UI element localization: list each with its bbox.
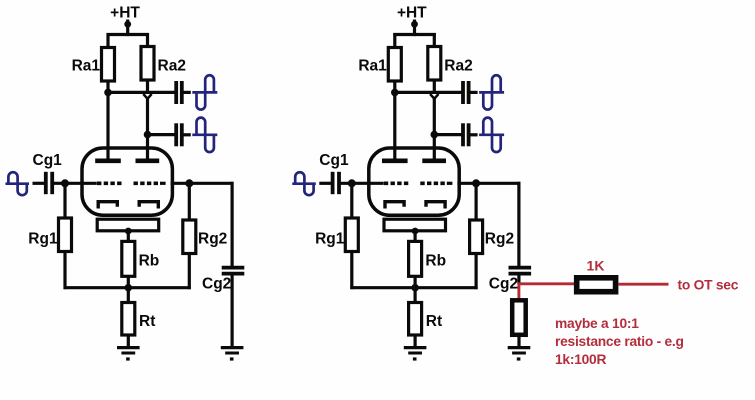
wire Ra2 bottom lead to anode 2 (left) — [146, 80, 149, 91]
wire Rg1 top lead (left) — [63, 183, 66, 218]
valve grid 1 dashes (left) — [97, 182, 123, 186]
wire down to Cg2 (left) — [231, 182, 234, 266]
svg-text:Cg1: Cg1 — [319, 152, 349, 169]
svg-text:Rt: Rt — [139, 313, 155, 330]
node junction dot at heater/cathode return (left) — [125, 228, 132, 235]
wire Cg2 to ground (left) — [231, 275, 234, 347]
resistor Rt (left) — [122, 303, 135, 336]
resistor Ra1 (right) — [388, 48, 401, 82]
wire Rb bottom lead (right) — [414, 276, 417, 287]
wire Ra1 bottom lead to anode 1 (left) — [106, 81, 109, 161]
resistor Ra1 (left) — [102, 48, 115, 82]
svg-text:+HT: +HT — [110, 4, 140, 21]
wire bias rail (left) — [64, 286, 191, 289]
capacitor output coupling cap 1 (right) — [461, 81, 465, 104]
node junction dot bias rail (left) — [125, 284, 133, 292]
wire Rt top lead (left) — [127, 288, 130, 303]
wire red jumper horizontal to 1K resistor — [518, 282, 576, 285]
capacitor Cg2 (right) — [509, 266, 532, 270]
wire Cg1 to grid (right) — [340, 182, 383, 185]
resistor 1K series — [577, 278, 616, 292]
valve U envelope (left) — [82, 148, 172, 215]
wire top rail between Ra1 and Ra2 (left) — [107, 33, 150, 36]
capacitor Cg1 (right) — [331, 172, 335, 194]
resistor Ra2 (right) — [428, 47, 441, 81]
wire cap 1 to scope probe (left) — [183, 91, 191, 94]
node junction dot bias rail (right) — [411, 284, 419, 292]
wire cathode column to Rb (left) — [127, 231, 130, 241]
capacitor output coupling cap 1 (left) — [174, 81, 178, 104]
valve U envelope (right) — [369, 148, 459, 215]
node junction dot grid right (left) — [185, 179, 193, 187]
wire Rt bottom lead (right) — [414, 335, 417, 347]
wire Rt top lead (right) — [414, 288, 417, 303]
wire red jumper down to divider resistor — [517, 284, 520, 299]
svg-text:Cg2: Cg2 — [202, 276, 231, 293]
svg-text:Rg2: Rg2 — [485, 231, 514, 248]
wire Cg1 to grid (left) — [54, 182, 97, 185]
svg-text:Ra1: Ra1 — [358, 58, 387, 75]
svg-text:maybe a 10:1: maybe a 10:1 — [555, 316, 639, 331]
wire cap 2 to scope probe (left) — [183, 133, 191, 136]
svg-text:Rb: Rb — [425, 253, 446, 270]
wire input to Cg1 (right) — [319, 182, 332, 185]
valve grid 2 dashes (right) — [420, 182, 447, 186]
wire anode 1 output line to coupling cap (left) — [108, 91, 176, 94]
wire divider resistor to ground — [517, 337, 520, 347]
wire anode 2 output line to coupling cap (left) — [148, 133, 177, 136]
wire Rg2 bottom lead (left) — [188, 254, 191, 290]
waveform sine at anode 2 output (left) — [192, 133, 217, 136]
wire Rg1 bottom lead (right) — [350, 252, 353, 290]
wire Rg1 top lead (right) — [350, 183, 353, 218]
wire Rg2 top lead (right) — [475, 183, 478, 220]
waveform inverted sine at anode 1 output (left) — [192, 91, 217, 94]
svg-text:Rt: Rt — [426, 313, 442, 330]
svg-text:+HT: +HT — [397, 4, 427, 21]
wire red to OT secondary — [618, 283, 668, 286]
wire Ra1 top lead (right) — [393, 33, 396, 48]
valve grid 2 dashes (left) — [134, 182, 161, 186]
node junction dot grid input (right) — [348, 179, 356, 187]
svg-text:Ra1: Ra1 — [72, 58, 101, 75]
node junction dot anode 1 output (right) — [391, 89, 399, 97]
node junction dot grid input (left) — [61, 179, 69, 187]
wire crossover hop of Ra2 lead over anode-1 line (left) — [143, 94, 151, 99]
resistor Rt (right) — [409, 303, 422, 336]
wire cathode column to Rb (right) — [414, 231, 417, 241]
wire cap 1 to scope probe (right) — [470, 91, 478, 94]
wire Rb bottom lead (left) — [127, 276, 130, 287]
svg-text:resistance ratio - e.g: resistance ratio - e.g — [555, 334, 684, 349]
wire anode 1 output line to coupling cap (right) — [395, 91, 463, 94]
node junction dot on +HT lead (left) — [124, 21, 131, 28]
resistor Rg1 (left) — [59, 218, 72, 252]
capacitor output coupling cap 2 (left) — [174, 123, 178, 146]
resistor Rb (left) — [122, 241, 135, 276]
valve anode plate 1 (right) — [382, 159, 408, 164]
valve anode plate 2 (right) — [422, 159, 446, 164]
node junction dot anode 2 output (left) — [144, 131, 152, 139]
wire Ra2 bottom lead to anode 2 (right) — [433, 80, 436, 91]
wire crossover hop of Ra2 lead over anode-1 line (right) — [430, 94, 438, 99]
wire grid stub inside envelope right (left) — [160, 182, 166, 185]
valve heater box (right) — [384, 219, 446, 231]
waveform input sine (right) — [292, 182, 316, 185]
svg-text:Rg2: Rg2 — [198, 231, 227, 248]
wire Cg2 bottom stub (right) — [517, 275, 520, 284]
waveform sine at anode 2 output (right) — [479, 133, 504, 136]
wire input to Cg1 (left) — [33, 182, 46, 185]
capacitor output coupling cap 2 (right) — [461, 123, 465, 146]
svg-text:Rg1: Rg1 — [28, 231, 58, 248]
resistor Rg2 (right) — [470, 220, 483, 254]
valve cathode 1 (left) — [98, 202, 117, 209]
node junction dot on +HT lead (right) — [411, 21, 418, 28]
ground below Rt (left) — [117, 346, 140, 349]
ground below Cg2 (left) — [221, 346, 244, 349]
svg-text:Ra2: Ra2 — [158, 58, 186, 75]
ground below Rt (right) — [404, 346, 427, 349]
svg-text:Cg1: Cg1 — [33, 152, 63, 169]
valve cathode 2 (right) — [426, 202, 445, 209]
resistor Rg1 (right) — [345, 218, 358, 252]
wire down to Cg2 (right) — [517, 182, 520, 266]
svg-text:1k:100R: 1k:100R — [555, 352, 606, 367]
svg-text:to OT sec: to OT sec — [678, 277, 739, 292]
valve cathode 2 (left) — [139, 202, 158, 209]
valve heater box (left) — [97, 219, 159, 231]
wire cap 2 to scope probe (right) — [470, 133, 478, 136]
resistor Ra2 (left) — [141, 47, 154, 81]
valve anode plate 2 (left) — [136, 159, 160, 164]
waveform input sine (left) — [6, 182, 30, 185]
valve anode plate 1 (left) — [95, 159, 121, 164]
node junction dot anode 1 output (left) — [104, 89, 112, 97]
node junction dot at heater/cathode return (right) — [412, 228, 419, 235]
resistor Rg2 (left) — [183, 220, 196, 254]
wire Rg2 top lead (left) — [188, 183, 191, 220]
node junction dot grid right (right) — [472, 179, 480, 187]
wire Rg2 bottom lead (right) — [475, 254, 478, 290]
wire Rt bottom lead (left) — [127, 335, 130, 347]
wire anode 2 output line to coupling cap (right) — [434, 133, 463, 136]
svg-text:Ra2: Ra2 — [444, 58, 472, 75]
svg-text:Rb: Rb — [139, 253, 160, 270]
wire grid stub inside envelope right (right) — [447, 182, 453, 185]
svg-text:1K: 1K — [587, 257, 605, 273]
wire +HT vertical lead (right) — [413, 20, 416, 37]
svg-text:Cg2: Cg2 — [489, 276, 518, 293]
wire Ra2 top lead (left) — [146, 33, 149, 47]
wire Ra1 bottom lead to anode 1 (right) — [393, 81, 396, 161]
valve grid 1 dashes (right) — [384, 182, 410, 186]
wire grid line right side to Rg2/Cg2 corner (left) — [171, 182, 234, 185]
wire top rail between Ra1 and Ra2 (right) — [393, 33, 436, 36]
svg-text:Rg1: Rg1 — [315, 231, 345, 248]
valve cathode 1 (right) — [385, 202, 404, 209]
ground below divider resistor — [508, 346, 531, 349]
resistor Rb (right) — [409, 241, 422, 276]
waveform inverted sine at anode 1 output (right) — [479, 91, 504, 94]
node junction dot anode 2 output (right) — [431, 131, 439, 139]
wire +HT vertical lead (left) — [126, 20, 129, 37]
wire bias rail (right) — [350, 286, 477, 289]
wire Ra2 top lead (right) — [433, 33, 436, 47]
resistor divider lower (unlabelled) — [512, 300, 526, 335]
capacitor Cg1 (left) — [44, 172, 48, 194]
wire Rg1 bottom lead (left) — [63, 252, 66, 290]
capacitor Cg2 (left) — [222, 266, 245, 270]
wire grid line right side to Rg2/Cg2 corner (right) — [457, 182, 520, 185]
wire Ra1 top lead (left) — [106, 33, 109, 48]
